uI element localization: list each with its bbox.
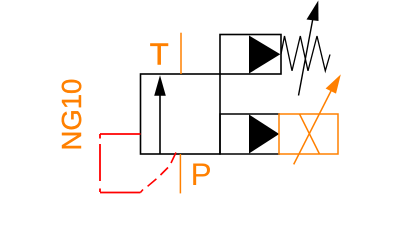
svg-text:T: T <box>150 37 169 72</box>
solenoid box (orange) <box>279 114 338 154</box>
red callout: diagonal dashed <box>140 153 176 193</box>
pilot stage box (upper) <box>220 35 281 75</box>
solenoid cross stroke <box>300 114 320 154</box>
spring adjustment arrow <box>299 1 319 96</box>
proportional arrow (orange) <box>294 74 341 164</box>
red callout: bottom horizontal <box>100 192 140 194</box>
P port line <box>179 154 181 193</box>
red callout: top horizontal <box>100 133 141 135</box>
main stage box (lower) <box>220 114 280 154</box>
main stage triangle <box>249 115 279 154</box>
svg-text:NG10: NG10 <box>56 79 87 151</box>
flow path arrow (P to T) <box>154 75 166 154</box>
spring <box>281 36 330 71</box>
red callout: left vertical dashed <box>99 134 101 192</box>
svg-text:P: P <box>191 156 212 192</box>
T port line <box>180 33 182 74</box>
valve body square <box>141 74 221 154</box>
pilot stage triangle <box>249 36 280 74</box>
